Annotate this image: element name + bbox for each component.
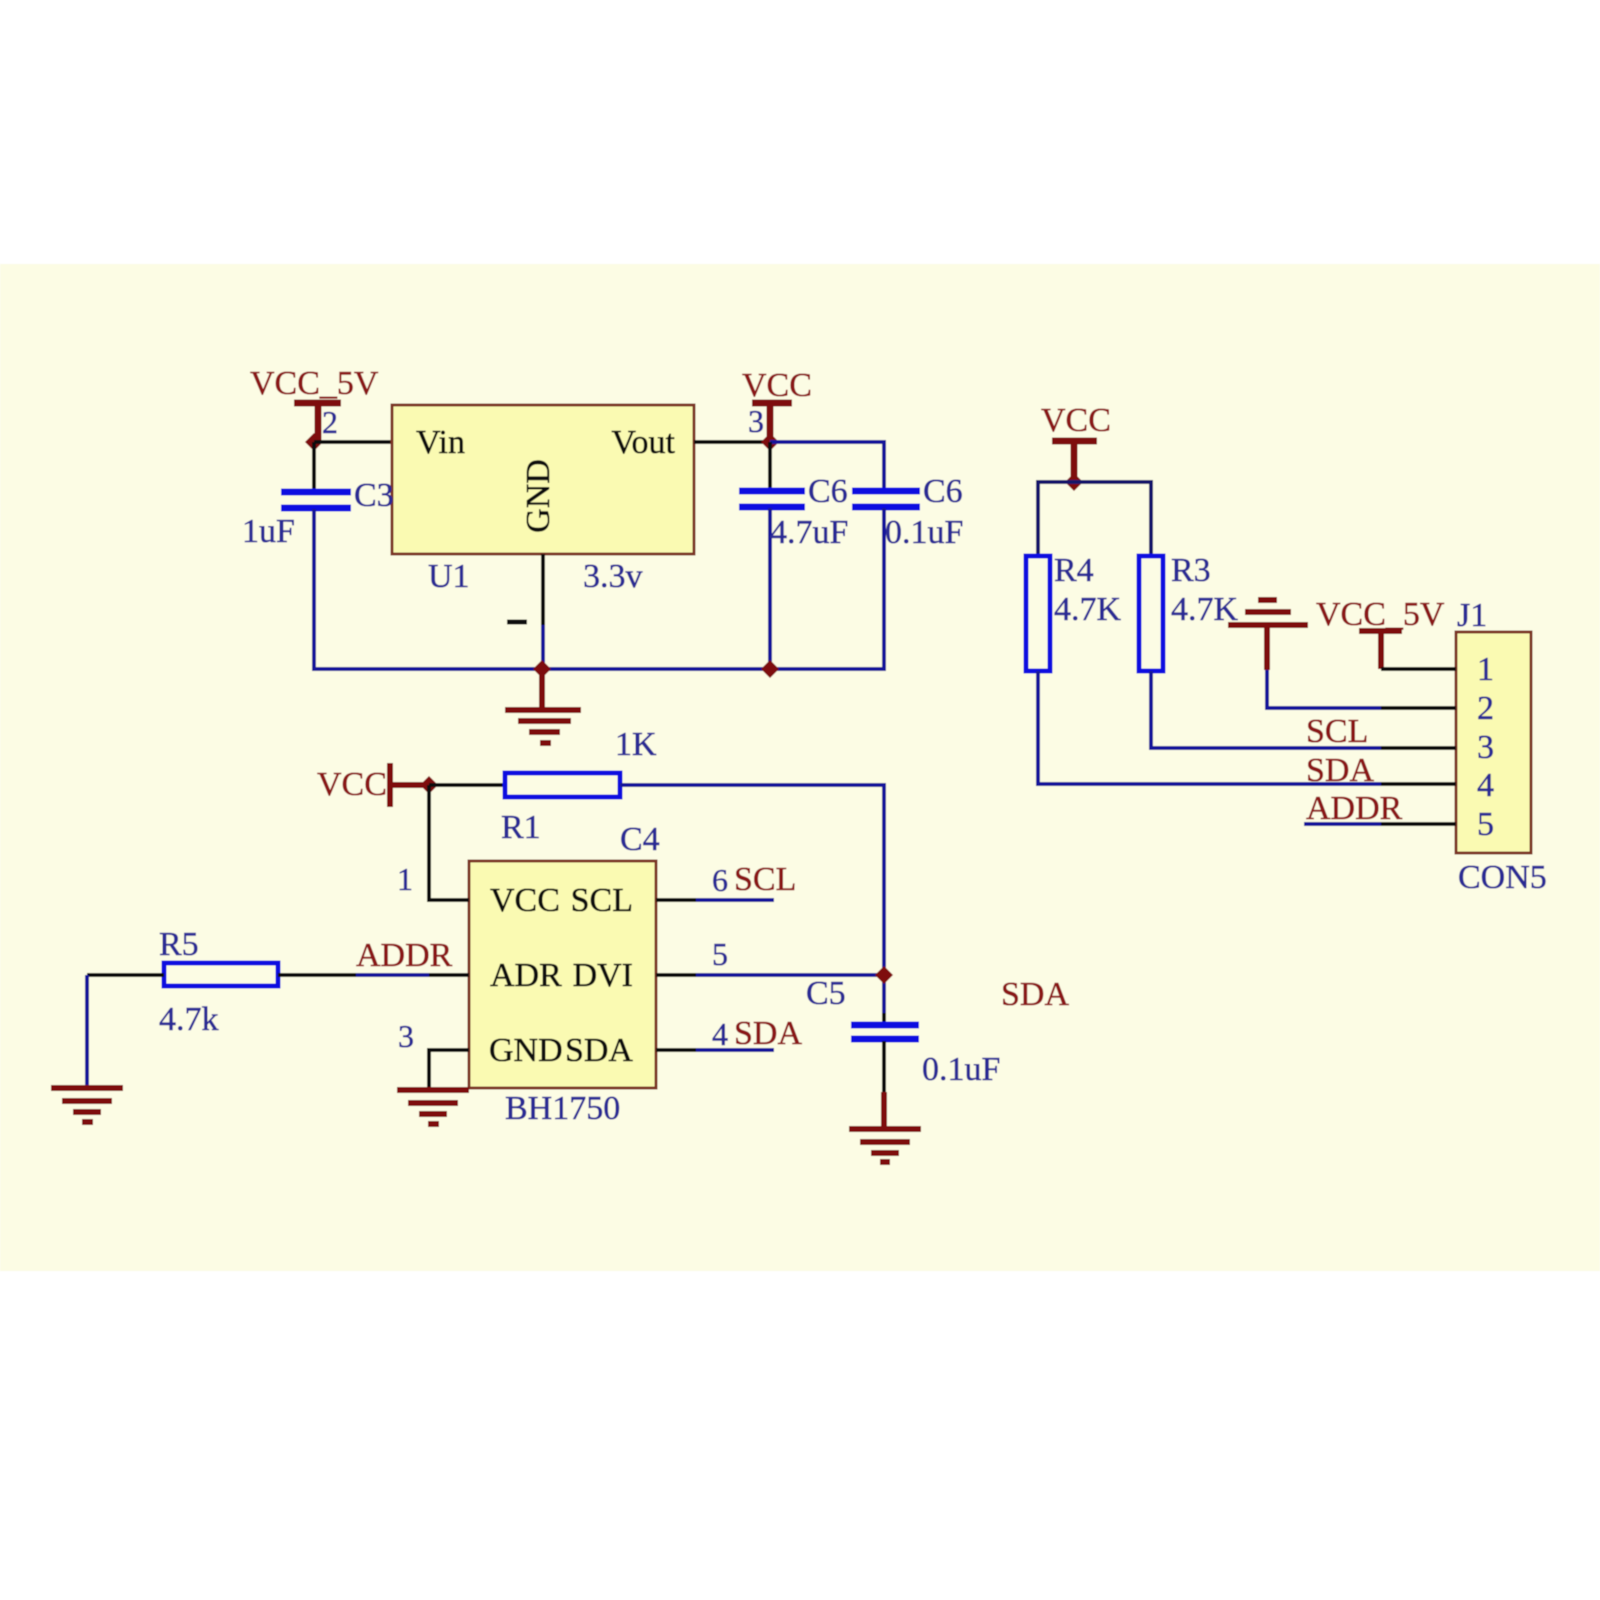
wire ADR pin stub — [429, 973, 469, 977]
wire R4 bottom to pin 4 — [1038, 671, 1383, 784]
svg-text:4: 4 — [1477, 767, 1494, 804]
pin 3 stub — [1381, 746, 1456, 750]
wire R5 left stub — [87, 973, 164, 977]
svg-text:C5: C5 — [806, 975, 846, 1012]
svg-text:R4: R4 — [1054, 552, 1094, 589]
svg-text:0.1uF: 0.1uF — [922, 1051, 1000, 1088]
svg-text:Vin: Vin — [416, 424, 465, 461]
svg-text:ADDR: ADDR — [356, 937, 453, 974]
wire ground rail — [312, 667, 886, 671]
svg-text:6: 6 — [712, 862, 728, 898]
wire R5 right stub — [278, 973, 356, 977]
wire VCC node to pin 1 — [429, 785, 469, 900]
svg-text:3: 3 — [398, 1018, 414, 1054]
wire C3 bottom to rail — [312, 509, 316, 671]
capacitor C5 plates — [851, 1025, 919, 1039]
capacitor C3 plates — [281, 492, 351, 508]
svg-text:C6: C6 — [808, 473, 848, 510]
svg-text:SDA: SDA — [734, 1015, 802, 1052]
wire C6b bottom to rail — [882, 508, 886, 671]
pin mark dash — [507, 620, 527, 625]
junction node VCC (right) — [1065, 473, 1083, 491]
capacitor C3 stub top — [312, 442, 316, 490]
svg-text:2: 2 — [322, 404, 338, 440]
wire C5 bottom — [882, 1041, 886, 1092]
junction node VCC_5V — [305, 433, 323, 451]
svg-text:4: 4 — [712, 1016, 728, 1052]
capacitor C6a plates — [739, 491, 805, 507]
wire SDA — [696, 1048, 774, 1052]
ground symbol (C5) — [849, 1092, 921, 1162]
svg-text:2: 2 — [1477, 690, 1494, 727]
wire DVI pin stub — [656, 973, 696, 977]
resistor R3 — [1139, 556, 1163, 671]
power VCC bar symbol (R1) — [390, 763, 430, 807]
wire pin 3 to ground — [429, 1050, 469, 1087]
capacitor C6b plates — [852, 491, 920, 507]
svg-text:C4: C4 — [620, 821, 660, 858]
wire pin stub to Vin — [314, 440, 392, 444]
svg-text:1uF: 1uF — [242, 513, 295, 550]
wire SDA pin stub — [656, 1048, 696, 1052]
svg-text:SCL: SCL — [571, 882, 633, 919]
svg-text:VCC: VCC — [490, 882, 560, 919]
svg-text:SCL: SCL — [734, 861, 796, 898]
svg-text:Vout: Vout — [611, 424, 675, 461]
junction node rail-C6a — [761, 660, 779, 678]
schematic canvas — [0, 264, 1600, 1271]
pin 1 stub — [1381, 667, 1456, 671]
wire Vout pin stub — [694, 440, 770, 444]
junction node VCC — [761, 433, 779, 451]
svg-text:CON5: CON5 — [1458, 859, 1547, 896]
svg-text:GND: GND — [489, 1032, 563, 1069]
svg-text:5: 5 — [712, 936, 728, 972]
svg-text:ADDR: ADDR — [1306, 790, 1403, 827]
svg-text:VCC: VCC — [742, 367, 812, 404]
wire C6a bottom to rail — [768, 508, 772, 671]
pin 5 stub — [1381, 822, 1456, 826]
resistor R1 — [505, 773, 620, 797]
ground symbol (R5) — [51, 1088, 123, 1122]
svg-text:SCL: SCL — [1306, 713, 1368, 750]
svg-text:VCC: VCC — [317, 766, 387, 803]
svg-text:0.1uF: 0.1uF — [885, 514, 963, 551]
ground symbol (pin 3) — [397, 1090, 469, 1124]
regulator U1 body — [392, 405, 694, 554]
connector J1 body — [1456, 632, 1531, 853]
svg-text:R1: R1 — [501, 809, 541, 846]
svg-text:4.7K: 4.7K — [1054, 591, 1122, 628]
capacitor C5 stub top — [882, 1013, 886, 1024]
power VCC bar symbol (right) — [1052, 441, 1097, 482]
svg-text:BH1750: BH1750 — [505, 1090, 620, 1127]
svg-text:C3: C3 — [354, 477, 394, 514]
ground symbol (U1) — [505, 669, 581, 743]
capacitor C6a stub — [768, 442, 772, 490]
resistor R4 — [1026, 556, 1050, 671]
svg-text:R3: R3 — [1171, 552, 1211, 589]
svg-text:VCC: VCC — [1041, 402, 1111, 439]
wire ground to pin 2 — [1267, 670, 1383, 708]
ground symbol (pin 2, inverted) — [1228, 600, 1308, 670]
wire DVI to junction — [696, 973, 884, 977]
wire SCL pin stub — [656, 898, 696, 902]
wire VCC node to C6b corner — [770, 442, 884, 490]
svg-text:3: 3 — [748, 403, 764, 439]
svg-text:C6: C6 — [923, 473, 963, 510]
wire R1 left stub — [429, 783, 505, 787]
svg-text:VCC_5V: VCC_5V — [1316, 596, 1445, 633]
svg-text:ADR: ADR — [490, 957, 562, 994]
wire VCC top rail — [1038, 482, 1151, 556]
junction node VCC-R1 — [420, 776, 438, 794]
wire ADDR — [356, 973, 429, 977]
svg-text:J1: J1 — [1457, 597, 1487, 634]
svg-text:DVI: DVI — [573, 957, 633, 994]
power VCC_5V bar symbol — [294, 403, 341, 443]
svg-text:VCC_5V: VCC_5V — [250, 365, 379, 402]
svg-text:3: 3 — [1477, 729, 1494, 766]
svg-text:1: 1 — [397, 861, 413, 897]
wire SCL — [696, 898, 774, 902]
wire GND pin to rail — [541, 625, 545, 671]
pin 2 stub — [1381, 706, 1456, 710]
svg-text:4.7k: 4.7k — [159, 1001, 219, 1038]
svg-text:5: 5 — [1477, 806, 1494, 843]
svg-text:1K: 1K — [615, 726, 657, 763]
svg-text:1: 1 — [1477, 651, 1494, 688]
wire U1 GND pin down — [541, 554, 545, 625]
svg-text:GND: GND — [520, 459, 557, 533]
wire ADDR stub (J1) — [1304, 822, 1381, 826]
power VCC_5V bar symbol (right) — [1359, 631, 1402, 669]
svg-text:4.7uF: 4.7uF — [770, 514, 848, 551]
wire R1 right to corner — [620, 785, 884, 1013]
IC BH1750 body — [469, 861, 656, 1088]
svg-text:SDA: SDA — [565, 1032, 633, 1069]
pin 4 stub — [1381, 782, 1456, 786]
junction node C5 — [875, 966, 893, 984]
svg-text:SDA: SDA — [1001, 976, 1069, 1013]
svg-text:R5: R5 — [159, 926, 199, 963]
svg-text:3.3v: 3.3v — [583, 558, 643, 595]
svg-text:SDA: SDA — [1306, 752, 1374, 789]
wire R3 bottom to pin 3 — [1151, 671, 1383, 748]
junction node rail-GND — [533, 660, 551, 678]
wire R5 left down — [85, 975, 89, 1085]
svg-text:U1: U1 — [428, 558, 470, 595]
resistor R5 — [164, 963, 278, 986]
power VCC bar symbol — [752, 403, 792, 443]
